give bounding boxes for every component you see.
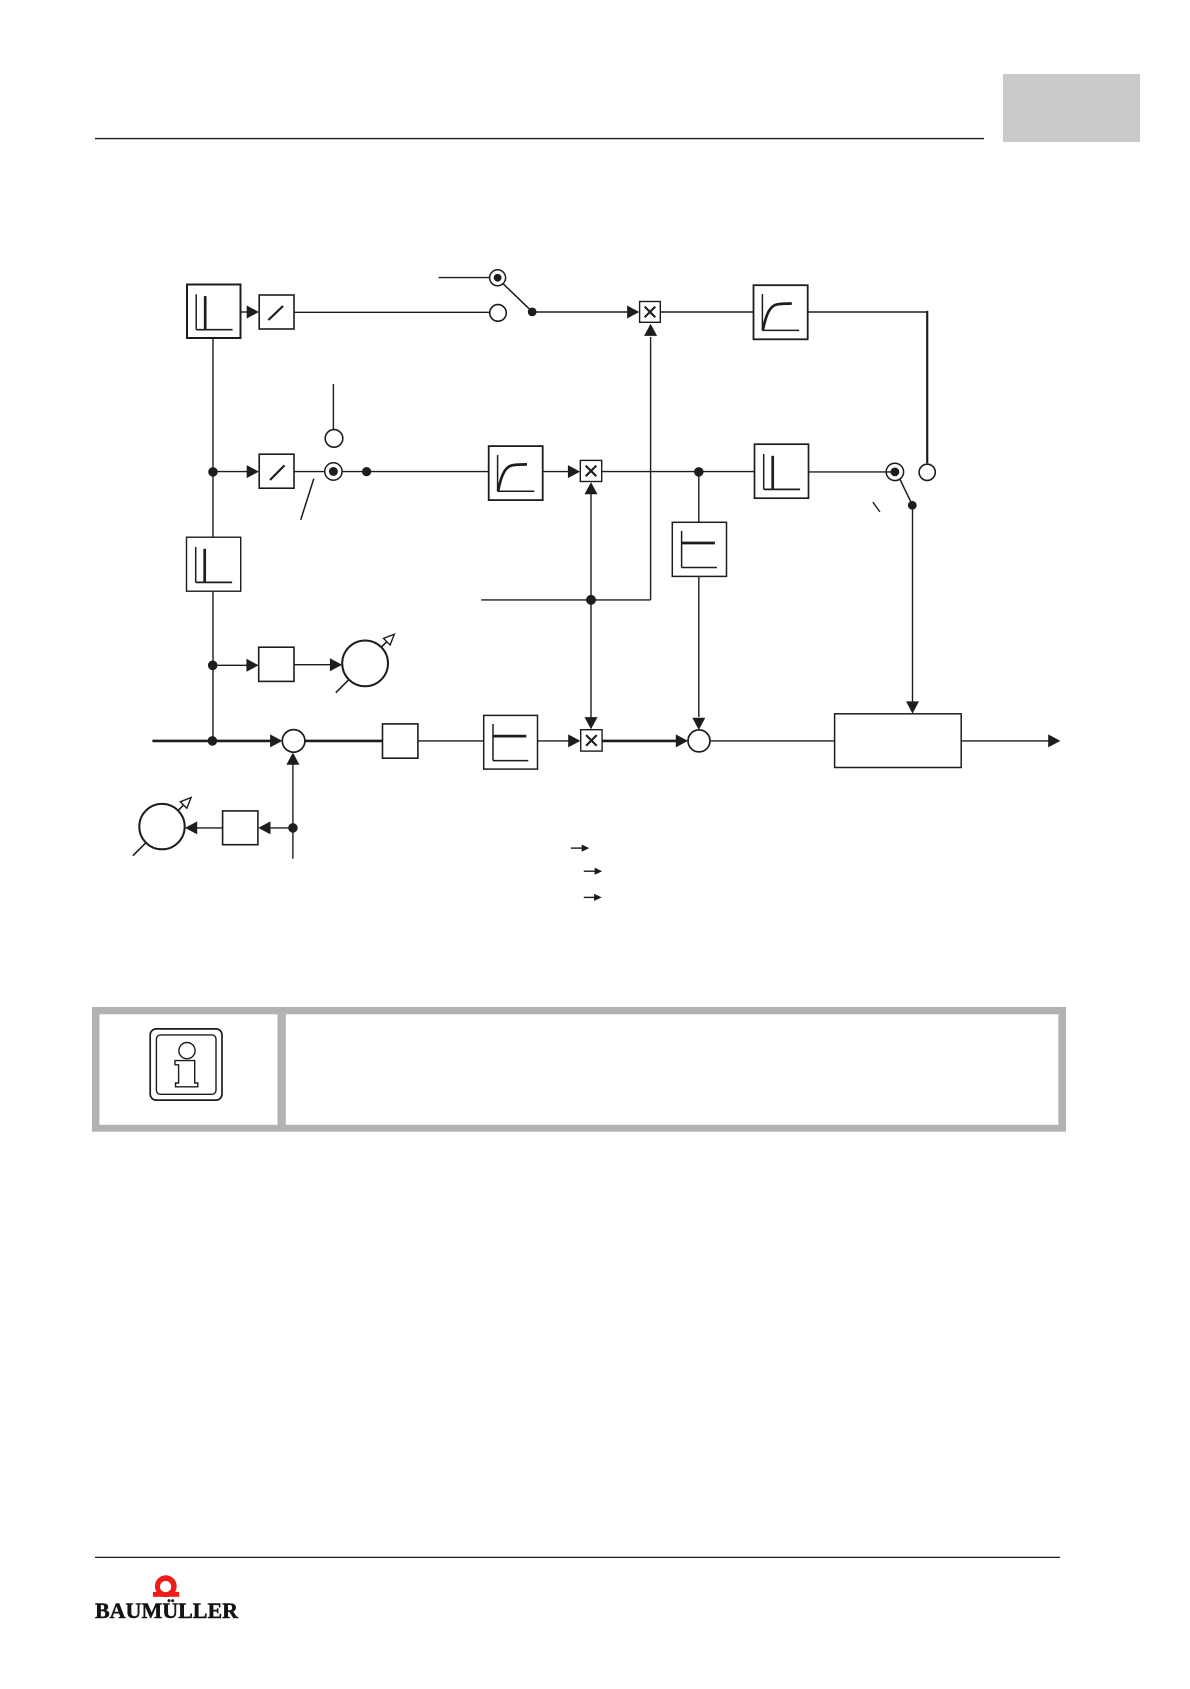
- wire E2 to T2: [418, 740, 484, 742]
- main input wire (thick): [152, 740, 271, 743]
- box C2 smoothing (PT1 curve): [489, 446, 543, 500]
- wire SUM2 to controller block: [710, 740, 835, 742]
- junction dot on A column (row 2): [208, 467, 218, 477]
- info note frame (gray): [92, 1007, 1066, 1132]
- switch S2 upper contact (open circle): [325, 430, 343, 448]
- wire S1 to X1 with arrowhead: [537, 311, 628, 313]
- parameter wire horizontal: [481, 599, 650, 601]
- box L2 ramp-generator: [755, 444, 809, 498]
- multiplier X1: [640, 302, 661, 323]
- wire A to B with arrowhead: [241, 311, 248, 313]
- box B2 slope limiter: [259, 454, 294, 488]
- wire S3 down to controller block with arrowhead: [912, 505, 914, 702]
- leader tick near S3: [873, 502, 880, 512]
- wire C1 right and down to S3: [808, 311, 928, 313]
- switch S1 lever: [503, 284, 530, 310]
- box T1 torque limit: [672, 522, 726, 576]
- wire to B2 with arrowhead: [218, 471, 248, 473]
- wire L2 to switch S3: [809, 471, 894, 473]
- box E3 (parameter): [223, 811, 258, 845]
- wire C2 to X2 with arrowhead: [543, 471, 569, 473]
- footer rule: [95, 1556, 1060, 1558]
- switch S1 upper stub wire: [439, 277, 490, 279]
- wire X2 to L2: [602, 471, 755, 473]
- stub wire above S2: [332, 384, 334, 430]
- switch S1 lower contact (open circle): [490, 305, 507, 322]
- wire A column lower: [212, 591, 214, 741]
- wire T1 down to summing point with arrowhead: [698, 576, 700, 717]
- output wire with arrowhead: [961, 740, 1048, 742]
- parameter wire up to X1 with arrowhead: [650, 337, 652, 600]
- legend arrow 2: [584, 870, 595, 872]
- meter M1 (display instrument): [342, 641, 388, 687]
- box E2 (parameter): [383, 724, 418, 758]
- switch S1 common dot: [528, 308, 537, 317]
- wire junction to T1: [698, 476, 700, 522]
- legend arrow 1: [571, 847, 582, 849]
- wire X3 to SUM2 (thick) with arrowhead: [602, 740, 676, 743]
- box T2 torque limit: [484, 715, 538, 769]
- Baumueller logo mark (red): [155, 1575, 177, 1597]
- junction dot on main input: [208, 736, 218, 746]
- box C1 smoothing (PT1 curve): [754, 285, 808, 339]
- wire to box E1 with arrowhead: [218, 664, 248, 666]
- header gray box: [1003, 74, 1140, 142]
- wire E1 to meter M1 with arrowhead: [294, 664, 330, 666]
- switch S3 left contact (ring with dot): [886, 463, 903, 480]
- wire B2 to switch S2: [294, 471, 325, 473]
- legend arrow 3: [584, 896, 595, 898]
- parameter wire down to X3 with arrowhead: [590, 600, 592, 718]
- wire X1 to C1: [660, 311, 753, 313]
- info icon: [150, 1029, 222, 1100]
- junction dot actual-value branch: [288, 823, 298, 833]
- switch S3 common dot: [908, 501, 917, 510]
- controller block (wide rectangle): [835, 714, 962, 768]
- info note text cell (white): [286, 1014, 1059, 1125]
- switch S1 upper contact (ring with dot): [490, 270, 506, 286]
- svg-text:BAUMÜLLER: BAUMÜLLER: [95, 1598, 239, 1623]
- multiplier X3: [581, 730, 602, 751]
- wire A column upper: [212, 338, 214, 537]
- summing point SUM2: [688, 730, 710, 752]
- junction dot after S2: [362, 467, 371, 476]
- junction dot meter branch: [208, 661, 218, 671]
- switch S3 lever: [900, 479, 911, 502]
- wire T2 to X3 with arrowhead: [538, 740, 569, 742]
- arrowhead into summing point SUM1: [270, 734, 282, 747]
- header rule: [95, 138, 984, 140]
- wire E3 to meter M2 with left arrowhead: [197, 827, 223, 829]
- info note icon cell (white): [99, 1014, 277, 1125]
- switch S2 contact (ring with dot): [325, 463, 342, 480]
- parameter wire up to X2 with arrowhead: [590, 494, 592, 600]
- switch S3 right contact (open circle): [919, 464, 935, 480]
- junction dot before L2: [694, 467, 704, 477]
- junction dot on parameter wire: [586, 595, 596, 605]
- box B slope limiter: [259, 295, 294, 329]
- wire to E3 with left arrowhead: [270, 827, 288, 829]
- meter M2 (display instrument): [139, 804, 184, 849]
- box E1 (parameter): [259, 647, 294, 681]
- summing point SUM1: [282, 730, 305, 753]
- wire below SUM1 with up arrowhead: [292, 764, 294, 859]
- wire S2 to C2: [342, 471, 489, 473]
- box A ramp-generator (top-left): [187, 285, 241, 339]
- switch S2 lever (open position): [301, 479, 314, 520]
- wire SUM1 to E2 (thick): [305, 740, 383, 743]
- box A2 ramp-generator: [187, 537, 241, 591]
- wire B to switch S1 lower contact: [294, 311, 490, 313]
- multiplier X2: [580, 460, 601, 481]
